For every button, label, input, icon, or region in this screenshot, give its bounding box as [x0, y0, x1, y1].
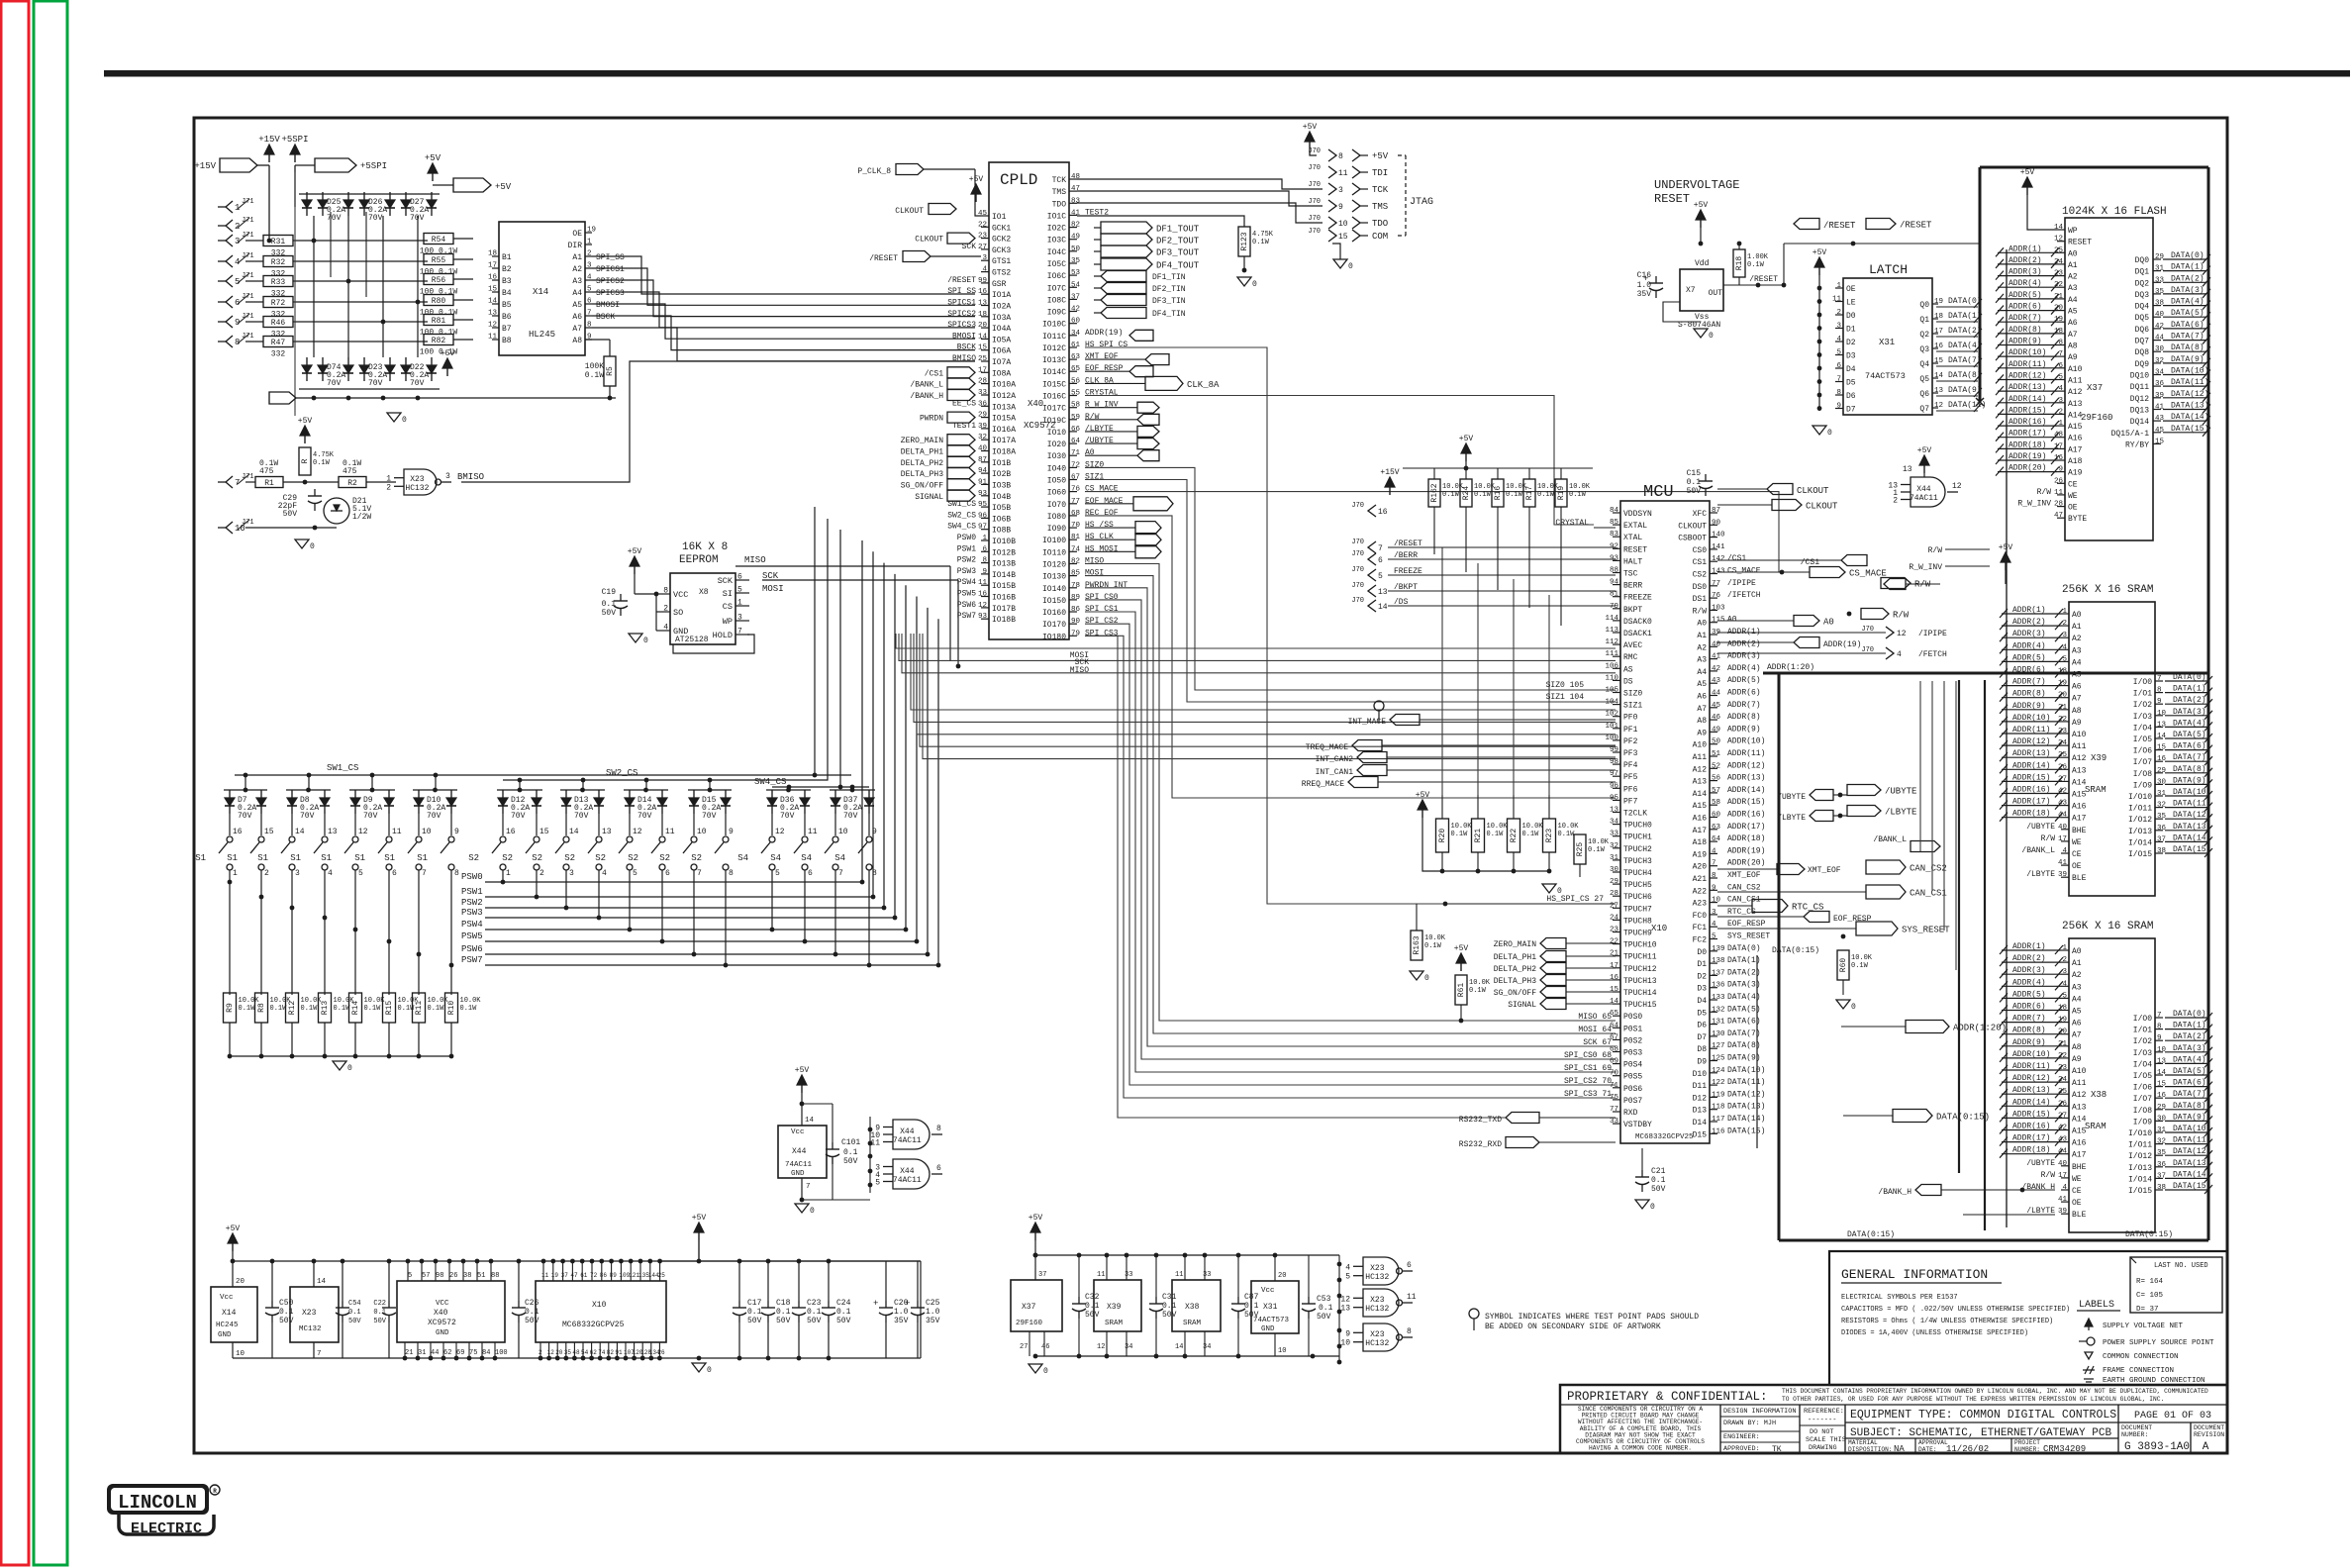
wire S1 col 3 down: [290, 882, 295, 995]
svg-text:SUPPLY VOLTAGE NET: SUPPLY VOLTAGE NET: [2103, 1323, 2184, 1330]
svg-text:DATA(10): DATA(10): [2171, 367, 2208, 376]
MCU pin FREEZE: [1610, 591, 1652, 603]
svg-text:+5V: +5V: [1917, 446, 1932, 455]
svg-text:0.1: 0.1: [1687, 478, 1702, 487]
svg-text:14: 14: [1175, 1343, 1183, 1351]
svg-text:I/O7: I/O7: [2133, 758, 2152, 767]
svg-text:TDO: TDO: [1052, 200, 1067, 209]
svg-text:ADDR(8): ADDR(8): [2012, 1027, 2046, 1035]
svg-text:R13: R13: [321, 1001, 330, 1016]
connector J71 pin 6: [218, 293, 254, 308]
svg-text:LATCH: LATCH: [1869, 262, 1908, 277]
svg-text:4: 4: [602, 869, 607, 878]
svg-text:ADDR(19): ADDR(19): [1727, 846, 1765, 855]
net SIZ1: [1546, 693, 1585, 702]
svg-text:/RESET: /RESET: [1900, 221, 1932, 231]
svg-text:ADDR(14): ADDR(14): [2009, 395, 2046, 404]
MCU pin BKPT: [1610, 603, 1642, 615]
svg-text:J70: J70: [1351, 550, 1364, 558]
svg-text:DATA(7): DATA(7): [2173, 753, 2206, 762]
X38 pin A5: [2000, 1003, 2082, 1017]
svg-text:+5V: +5V: [1303, 123, 1318, 132]
svg-text:DATA(1): DATA(1): [2171, 263, 2205, 272]
svg-text:7: 7: [317, 1350, 322, 1358]
svg-text:T2CLK: T2CLK: [1623, 810, 1647, 819]
net SW2_CS: [503, 519, 828, 780]
+5V flash2: [1999, 543, 2013, 584]
wire S1 col 4 down: [323, 882, 328, 995]
resistor R162: [1428, 468, 1464, 554]
resistor R56: [420, 274, 473, 297]
svg-text:LABELS: LABELS: [2079, 1300, 2114, 1311]
svg-text:50V: 50V: [776, 1317, 791, 1325]
svg-text:ADDR(17): ADDR(17): [2012, 1134, 2050, 1143]
svg-text:SW2_CS: SW2_CS: [947, 511, 976, 520]
X14 pin A4: [572, 286, 625, 299]
HS_/SS flag cpld: [1085, 522, 1161, 535]
svg-text:14: 14: [1378, 603, 1388, 612]
wire spi net: [1085, 564, 1616, 1022]
svg-text:X14: X14: [222, 1309, 237, 1318]
svg-text:XMT_EOF: XMT_EOF: [1727, 871, 1761, 880]
svg-text:R55: R55: [432, 256, 446, 265]
svg-text:+5V: +5V: [1029, 1214, 1043, 1223]
CPLD pin GTS1: [981, 254, 1011, 266]
svg-text:93: 93: [978, 490, 988, 498]
MCU pin A19: [1693, 846, 1766, 859]
svg-text:PWRDN_INT: PWRDN_INT: [1085, 581, 1127, 590]
svg-text:DQ3: DQ3: [2135, 291, 2150, 300]
X31 pin Q0: [1919, 297, 1982, 310]
wire REC_EOF net: [1085, 516, 1616, 798]
MCU pin HALT: [1610, 554, 1642, 566]
svg-text:SIZ1: SIZ1: [1085, 473, 1104, 482]
svg-text:/BANK_L: /BANK_L: [1873, 835, 1907, 844]
svg-text:A10: A10: [2072, 731, 2087, 739]
svg-text:22: 22: [1610, 938, 1618, 946]
svg-text:X8: X8: [699, 588, 709, 597]
switch S2 column 8: [691, 790, 734, 882]
svg-text:A19: A19: [1693, 850, 1708, 859]
svg-text:131: 131: [1712, 1019, 1725, 1027]
MCU pin TPUCH1: [1610, 831, 1652, 842]
svg-text:SPI_SS: SPI_SS: [596, 253, 625, 262]
CPLD pin IO180: [1042, 629, 1119, 641]
svg-text:ADDR(4): ADDR(4): [2012, 641, 2046, 650]
svg-text:25: 25: [658, 1272, 666, 1279]
svg-text:ADDR(16): ADDR(16): [2012, 1123, 2050, 1131]
svg-text:70V: 70V: [702, 812, 717, 821]
wire X14-CPLD: [592, 316, 975, 350]
svg-text:A5: A5: [2072, 671, 2082, 680]
svg-text:14: 14: [488, 298, 498, 306]
svg-text:13: 13: [328, 828, 338, 836]
svg-text:SI: SI: [723, 589, 733, 599]
svg-text:TPUCH4: TPUCH4: [1623, 869, 1652, 878]
svg-text:5: 5: [875, 1179, 880, 1188]
rail right end: [859, 1261, 921, 1358]
svg-text:I/O0: I/O0: [2133, 1015, 2152, 1024]
svg-text:C= 105: C= 105: [2136, 1292, 2164, 1300]
switch S2 column 3: [532, 790, 579, 882]
svg-text:+15V: +15V: [1380, 468, 1399, 477]
svg-text:PROJECT: PROJECT: [2014, 1439, 2040, 1446]
zener D21: [324, 497, 371, 524]
test point symbol: [1374, 701, 1384, 723]
svg-text:S1: S1: [227, 853, 238, 863]
svg-text:RESET: RESET: [1654, 192, 1690, 206]
svg-text:/UBYTE: /UBYTE: [2026, 1159, 2055, 1168]
svg-text:1.0: 1.0: [926, 1308, 940, 1317]
svg-text:475: 475: [259, 467, 274, 476]
svg-text:J70: J70: [1351, 597, 1364, 605]
svg-text:A0: A0: [1727, 616, 1737, 625]
MCU pin FC0: [1693, 908, 1756, 921]
X39 pin I/O2: [2133, 696, 2212, 710]
X37 pin A2: [1996, 268, 2078, 282]
resistor R21: [1472, 795, 1509, 873]
svg-text:I/O14: I/O14: [2128, 1175, 2152, 1184]
X37 pin DQ1: [2135, 263, 2210, 277]
svg-text:SIZ0: SIZ0: [1085, 460, 1104, 469]
svg-text:COMMON CONNECTION: COMMON CONNECTION: [2103, 1353, 2179, 1361]
svg-text:PSW2: PSW2: [957, 556, 976, 565]
connector J70 JTAG pin 3 TCK: [1308, 181, 1388, 195]
svg-text:R47: R47: [271, 339, 286, 347]
resistor R1: [245, 459, 339, 488]
svg-text:45: 45: [1712, 702, 1721, 710]
X31 pin D2: [1835, 336, 1856, 347]
svg-text:A16: A16: [2072, 803, 2087, 812]
svg-text:17: 17: [978, 366, 987, 374]
svg-text:R14: R14: [351, 1001, 360, 1016]
X39 pin I/O11: [2128, 800, 2212, 814]
svg-text:IO120: IO120: [1042, 561, 1066, 570]
svg-text:FREEZE: FREEZE: [1623, 594, 1652, 603]
wire J70 /BERR: [1388, 558, 1616, 560]
svg-text:0.1: 0.1: [1319, 1304, 1333, 1313]
+5V supply arrow top: [425, 153, 441, 181]
svg-text:DATA(4): DATA(4): [1727, 993, 1761, 1002]
+5V supply EEPROM: [628, 547, 642, 574]
X37 pin A7: [1996, 326, 2078, 340]
svg-text:ADDR(7): ADDR(7): [1727, 701, 1761, 710]
svg-text:R/W: R/W: [1893, 611, 1910, 621]
wire S2 tap: [564, 882, 569, 910]
svg-text:AS: AS: [1623, 665, 1633, 674]
MCU pin A23: [1693, 896, 1761, 909]
svg-text:3: 3: [1338, 186, 1343, 195]
svg-text:0: 0: [347, 1064, 352, 1073]
svg-text:SPICS3: SPICS3: [596, 289, 625, 298]
X8 pin HOLD: [713, 628, 749, 641]
svg-text:6: 6: [587, 298, 592, 306]
net flag DF1_TIN: [1094, 271, 1186, 283]
svg-text:A8: A8: [2072, 707, 2082, 716]
svg-text:33: 33: [978, 389, 988, 397]
svg-text:0.1W: 0.1W: [1558, 831, 1576, 838]
svg-text:SW4_CS: SW4_CS: [754, 777, 786, 787]
resistor R25: [1574, 834, 1610, 877]
legend common connection: [2085, 1352, 2179, 1361]
svg-text:45: 45: [978, 210, 988, 218]
svg-text:88: 88: [1610, 567, 1618, 575]
svg-text:PF6: PF6: [1623, 785, 1638, 794]
wire BMISO net: [461, 361, 975, 482]
svg-text:OE: OE: [2068, 504, 2078, 513]
svg-text:87: 87: [1712, 507, 1720, 515]
svg-text:Q0: Q0: [1919, 301, 1929, 310]
svg-text:FC0: FC0: [1693, 912, 1708, 921]
svg-text:4: 4: [663, 624, 668, 633]
resistor R22: [1508, 795, 1544, 873]
svg-text:MC68332GCPV25: MC68332GCPV25: [562, 1321, 625, 1329]
svg-text:A2: A2: [572, 265, 582, 274]
svg-text:+5V: +5V: [2020, 168, 2035, 177]
svg-text:ADDR(5): ADDR(5): [1727, 676, 1761, 685]
svg-text:19: 19: [551, 1272, 559, 1279]
svg-text:16K X 8: 16K X 8: [682, 541, 728, 553]
svg-text:0: 0: [310, 542, 315, 551]
svg-text:X23: X23: [1370, 1330, 1385, 1339]
X39 pin I/O7: [2133, 753, 2212, 767]
svg-text:70V: 70V: [637, 812, 652, 821]
svg-text:44: 44: [431, 1349, 439, 1357]
wire CRYSTAL net: [1085, 396, 1594, 526]
EOF_MACE flag cpld: [1085, 497, 1173, 511]
svg-text:R/W: R/W: [1085, 413, 1100, 422]
X37 pin RESET: [2054, 236, 2092, 247]
CPLD pin GCK1: [978, 221, 1011, 233]
svg-text:DATA(0): DATA(0): [2173, 1010, 2206, 1019]
X10 bottom pin: [624, 1342, 636, 1360]
svg-text:R20: R20: [1438, 829, 1447, 843]
X14 pin B4: [488, 286, 512, 299]
svg-text:DATA(1): DATA(1): [2173, 1022, 2206, 1030]
svg-text:13: 13: [1378, 588, 1388, 597]
svg-text:I/O4: I/O4: [2133, 724, 2152, 733]
X31 pin D0: [1835, 309, 1856, 321]
svg-text:I/O10: I/O10: [2128, 793, 2152, 802]
EOF_RESP flag cpld: [1085, 366, 1153, 377]
svg-text:DELTA_PH1: DELTA_PH1: [901, 448, 943, 457]
svg-text:ADDR(16): ADDR(16): [2012, 786, 2050, 795]
MCU pin RXD: [1610, 1106, 1638, 1118]
svg-text:DO NOT: DO NOT: [1810, 1428, 1833, 1436]
svg-text:DATA(12): DATA(12): [1727, 1090, 1765, 1099]
svg-text:S1: S1: [195, 853, 206, 863]
svg-text:ADDR(9): ADDR(9): [2009, 338, 2042, 346]
svg-text:A20: A20: [1693, 863, 1708, 872]
svg-text:SPI_CS2: SPI_CS2: [1085, 617, 1119, 626]
svg-text:/LBYTE: /LBYTE: [1777, 814, 1806, 823]
CPLD pin IO3B: [901, 478, 1012, 490]
svg-text:DATA(12): DATA(12): [2171, 390, 2208, 399]
svg-text:DATA(2): DATA(2): [2171, 274, 2205, 283]
svg-text:90: 90: [1712, 519, 1721, 527]
svg-text:I/O11: I/O11: [2128, 805, 2152, 814]
svg-text:65: 65: [1071, 365, 1081, 373]
LATCH X31 74ACT573 block: [1843, 278, 1932, 415]
svg-text:138: 138: [1712, 957, 1725, 965]
CPLD pin IO14B: [957, 567, 1016, 580]
svg-text:7: 7: [1378, 544, 1383, 553]
svg-text:IO10B: IO10B: [992, 538, 1016, 546]
svg-text:DSACK1: DSACK1: [1623, 630, 1652, 638]
svg-text:8: 8: [1836, 389, 1841, 397]
wire HOLD loop: [673, 635, 754, 653]
svg-text:6: 6: [936, 1164, 941, 1173]
net SPI_CS1 mcu: [1564, 1064, 1612, 1073]
svg-text:SPICS1: SPICS1: [596, 265, 625, 274]
svg-text:ADDR(4): ADDR(4): [1727, 664, 1761, 673]
svg-text:CE: CE: [2072, 850, 2082, 859]
svg-text:IO13A: IO13A: [992, 403, 1016, 412]
X38 pin I/O4: [2133, 1055, 2212, 1069]
svg-text:ADDR(4): ADDR(4): [2012, 978, 2046, 987]
svg-text:IO18A: IO18A: [992, 448, 1016, 457]
X14 pin A6: [572, 310, 615, 323]
CPLD pin IO16B: [957, 590, 1016, 603]
svg-text:29F160: 29F160: [1016, 1320, 1043, 1327]
wire R8 gnd: [259, 1023, 264, 1058]
svg-text:6: 6: [737, 573, 742, 582]
connector J71 pin 3: [218, 232, 254, 246]
svg-text:34: 34: [1610, 819, 1619, 827]
svg-text:122: 122: [1712, 1079, 1725, 1087]
svg-text:/RESET: /RESET: [869, 254, 898, 263]
svg-text:HC132: HC132: [1365, 1339, 1389, 1348]
X37 pin BYTE: [2054, 512, 2087, 524]
MCU pin D9: [1697, 1054, 1760, 1067]
svg-text:7: 7: [587, 310, 592, 318]
MCU pin A5: [1697, 676, 1760, 689]
svg-text:TPUCH9: TPUCH9: [1623, 930, 1652, 938]
X7 S-80746AN block: [1678, 259, 1723, 330]
MCU pin A3: [1697, 652, 1760, 665]
svg-text:R61: R61: [1457, 983, 1466, 998]
X37 pin A10: [1996, 360, 2083, 374]
CPLD pin IO14C: [1042, 364, 1124, 377]
svg-text:A17: A17: [2072, 815, 2087, 824]
svg-text:83: 83: [1071, 197, 1081, 205]
svg-text:5: 5: [408, 1272, 412, 1280]
svg-text:A6: A6: [2068, 319, 2078, 328]
svg-text:APPROVED:: APPROVED:: [1723, 1445, 1760, 1453]
svg-text:ADDR(7): ADDR(7): [2012, 1015, 2046, 1024]
svg-text:74AC11: 74AC11: [893, 1136, 922, 1145]
svg-text:SG_ON/OFF: SG_ON/OFF: [901, 481, 943, 490]
svg-text:IO1B: IO1B: [992, 459, 1011, 468]
svg-text:30: 30: [2155, 345, 2165, 353]
svg-text:63: 63: [1071, 353, 1081, 361]
wire X14-CPLD: [592, 256, 975, 294]
MCU pin A0: [1697, 616, 1736, 629]
svg-text:IO130: IO130: [1042, 573, 1066, 582]
svg-text:P0S7: P0S7: [1623, 1097, 1642, 1106]
page cell: [2134, 1411, 2211, 1421]
svg-text:47: 47: [570, 1272, 578, 1279]
svg-text:13: 13: [1903, 465, 1912, 474]
svg-text:BMOSI: BMOSI: [952, 332, 976, 341]
svg-text:Vcc: Vcc: [791, 1128, 805, 1136]
connector J71 pin 10: [218, 519, 254, 534]
X44 gate A: [870, 1120, 942, 1149]
wire X14-CPLD: [592, 292, 975, 328]
svg-text:29: 29: [1610, 878, 1618, 886]
X38 pin I/O10: [2128, 1125, 2212, 1138]
svg-text:PSW7: PSW7: [957, 612, 976, 621]
svg-text:33: 33: [2155, 276, 2165, 284]
MCU title: [1643, 483, 1674, 502]
X10 top pin: [619, 1259, 631, 1281]
svg-text:93: 93: [978, 613, 988, 621]
svg-text:0: 0: [1709, 332, 1714, 341]
CPLD pin IO90: [1047, 521, 1114, 534]
flag SG_ON/OFF mcu: [1494, 987, 1616, 999]
title block v5: [2190, 1422, 2192, 1453]
svg-text:OUT: OUT: [1709, 289, 1723, 298]
svg-text:1.0: 1.0: [1637, 281, 1652, 290]
svg-text:THIS DOCUMENT CONTAINS PROPRIE: THIS DOCUMENT CONTAINS PROPRIETARY INFOR…: [1782, 1388, 2208, 1395]
flag DELTA_PH1 mcu: [1494, 951, 1616, 963]
svg-text:PSW6: PSW6: [957, 601, 976, 610]
wire diode pair top: [688, 788, 732, 793]
CPLD pin IO15C: [1042, 376, 1114, 389]
svg-text:A3: A3: [572, 277, 582, 286]
svg-text:CLKOUT: CLKOUT: [1797, 486, 1829, 496]
svg-text:PSW1: PSW1: [461, 887, 483, 897]
MCU pin CS1: [1693, 554, 1747, 567]
svg-text:Q7: Q7: [1919, 405, 1929, 414]
resistor R31: [245, 236, 428, 258]
svg-text:ADDR(20): ADDR(20): [1727, 859, 1765, 868]
svg-text:XFC: XFC: [1693, 510, 1708, 519]
svg-text:TPUCH13: TPUCH13: [1623, 977, 1657, 986]
switch S2 column 2: [502, 790, 549, 882]
svg-text:8: 8: [1407, 1327, 1412, 1336]
svg-text:32: 32: [1610, 842, 1618, 850]
svg-text:+: +: [905, 1299, 910, 1309]
svg-text:36: 36: [2157, 825, 2167, 833]
svg-text:7: 7: [2157, 1012, 2162, 1020]
svg-text:SCK 67: SCK 67: [1583, 1038, 1612, 1047]
X39 pin A4: [2000, 653, 2082, 667]
MCU pin TPUCH7: [1610, 902, 1652, 914]
svg-text:10.0K: 10.0K: [1424, 934, 1446, 942]
svg-text:IO140: IO140: [1042, 585, 1066, 594]
resistor R13: [319, 993, 355, 1023]
svg-text:61: 61: [1071, 342, 1081, 349]
svg-text:S1: S1: [321, 853, 332, 863]
wire S2 tap: [628, 882, 633, 931]
svg-text:3: 3: [982, 254, 987, 262]
svg-text:/LBYTE: /LBYTE: [1885, 808, 1916, 818]
CS_MACE flag: [1717, 567, 1887, 579]
svg-text:91: 91: [978, 478, 988, 486]
svg-text:D5: D5: [1697, 1009, 1707, 1018]
svg-text:PSW4: PSW4: [461, 920, 483, 930]
svg-text:46: 46: [1041, 1343, 1049, 1351]
svg-text:0.1W: 0.1W: [585, 371, 604, 380]
svg-text:8: 8: [982, 557, 987, 565]
MCU pin PF7: [1610, 794, 1638, 806]
CPLD pin TDO: [1052, 197, 1081, 209]
svg-text:7: 7: [697, 869, 702, 878]
svg-text:WE: WE: [2068, 492, 2078, 501]
svg-text:CAN_CS1: CAN_CS1: [1910, 889, 1947, 899]
svg-text:B8: B8: [502, 337, 512, 345]
